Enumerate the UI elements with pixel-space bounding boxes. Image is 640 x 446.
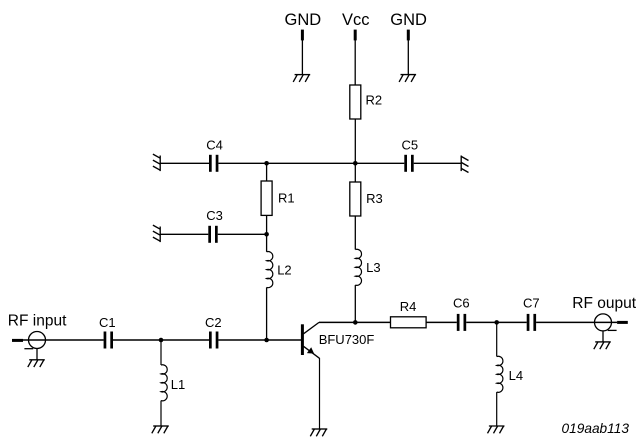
transistor emitter arrow: [307, 347, 314, 353]
svg-text:C6: C6: [453, 296, 470, 311]
wire RF input terminal through connector to C1: [23, 339, 104, 341]
svg-text:R1: R1: [278, 191, 295, 206]
capacitor C7: [527, 314, 536, 331]
wire C2 to transistor base: [218, 339, 301, 341]
inductor L4: [497, 356, 503, 392]
resistor R2: [350, 85, 361, 119]
connector circle RF input: [29, 332, 46, 349]
terminal stub Vcc: [354, 30, 357, 41]
capacitor C6: [457, 314, 466, 331]
wire R2 bottom to top bus junction: [354, 119, 356, 163]
transistor emitter lead: [304, 346, 320, 358]
ground (top right GND): [399, 75, 416, 82]
ground (left of C3, rotated): [153, 225, 160, 242]
capacitor C5: [404, 155, 413, 172]
node C2/L2/base junction: [264, 338, 269, 343]
terminal stub RF output: [617, 321, 628, 324]
svg-text:C2: C2: [205, 315, 222, 330]
capacitor C1: [104, 332, 113, 349]
resistor R3: [350, 182, 361, 216]
node C4/R1 junction: [264, 161, 269, 166]
capacitor C4: [209, 155, 218, 172]
node C1/L1 junction: [159, 338, 164, 343]
svg-text:BFU730F: BFU730F: [319, 332, 375, 347]
svg-text:GND: GND: [390, 11, 427, 29]
inductor L1: [161, 365, 167, 401]
ground (left of C4, rotated): [153, 154, 160, 171]
terminal stub RF input: [12, 339, 23, 342]
wire top bus junction to R3: [354, 163, 356, 182]
svg-text:L1: L1: [171, 377, 185, 392]
resistor R4: [391, 317, 427, 328]
svg-text:RF ouput: RF ouput: [572, 295, 636, 312]
ground (RF output connector): [594, 342, 611, 349]
node L3/collector junction: [353, 320, 358, 325]
wire C3 to junction: [218, 233, 267, 235]
terminal stub GND left: [301, 30, 304, 41]
wire left ground to C3: [160, 233, 208, 235]
svg-text:C4: C4: [206, 138, 223, 153]
ground (L1): [152, 426, 169, 433]
wire R1 bottom to C3 row junction: [266, 215, 268, 234]
ground (emitter): [310, 429, 327, 436]
wire GND right terminal to ground: [407, 40, 409, 75]
node C6/L4/C7 junction: [494, 320, 499, 325]
svg-text:R3: R3: [366, 191, 383, 206]
wire C4 to C5 (top bus): [218, 162, 404, 164]
wire C5 to right ground: [414, 162, 462, 164]
connector circle RF output: [595, 314, 612, 331]
wire connector shell to ground (RF output): [602, 331, 604, 342]
svg-text:R2: R2: [366, 93, 383, 108]
svg-text:C1: C1: [99, 315, 116, 330]
svg-text:RF input: RF input: [8, 312, 67, 329]
transistor collector lead: [304, 322, 320, 333]
connector shell stub RF input: [24, 348, 33, 350]
wire connector shell to ground (RF input): [36, 349, 38, 360]
wire junction to L1: [160, 340, 162, 365]
ground (L4): [488, 426, 505, 433]
wire Vcc terminal to R2: [354, 40, 356, 85]
svg-text:019aab113: 019aab113: [562, 421, 630, 436]
svg-text:C3: C3: [206, 208, 223, 223]
svg-text:R4: R4: [400, 299, 417, 314]
inductor L3: [355, 249, 361, 285]
svg-text:L2: L2: [277, 262, 291, 277]
ground (RF input connector): [28, 360, 45, 367]
wire junction to L2: [266, 234, 268, 252]
wire emitter to ground: [319, 358, 321, 429]
wire L2 bottom to base junction: [266, 287, 268, 340]
ground (right of C5, rotated): [461, 156, 468, 173]
resistor R1: [261, 181, 272, 215]
wire L3 bottom to collector junction: [354, 285, 356, 322]
svg-text:C5: C5: [402, 138, 419, 153]
wire GND left terminal to ground: [301, 40, 303, 75]
svg-text:C7: C7: [523, 296, 540, 311]
svg-text:L4: L4: [509, 368, 523, 383]
connector shell stub RF output: [608, 329, 617, 331]
svg-text:L3: L3: [366, 260, 380, 275]
terminal stub GND right: [407, 30, 410, 41]
svg-text:Vcc: Vcc: [342, 11, 370, 29]
wire top bus junction to R1: [266, 163, 268, 181]
transistor Q1 BFU730F base bar: [301, 324, 304, 355]
inductor L2: [267, 252, 273, 288]
wire collector to R4: [319, 321, 391, 323]
ground (top left GND): [293, 75, 310, 82]
wire C6 to C7: [466, 321, 527, 323]
wire left ground to C4: [160, 162, 209, 164]
node C3/R1/L2 junction: [264, 232, 269, 237]
wire junction to L4: [496, 322, 498, 356]
wire R3 bottom to L3: [354, 216, 356, 250]
capacitor C3: [208, 226, 217, 243]
capacitor C2: [209, 332, 218, 349]
wire C1 to C2: [113, 339, 209, 341]
wire R4 to C6: [426, 321, 457, 323]
node R2/R3/C5 junction: [353, 161, 358, 166]
wire L1 bottom to ground: [160, 401, 162, 426]
wire L4 bottom to ground: [496, 392, 498, 426]
svg-text:GND: GND: [285, 11, 322, 29]
wire C7 through connector to RF output terminal: [536, 321, 617, 323]
